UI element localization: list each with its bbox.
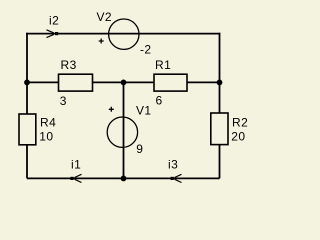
svg-text:3: 3: [60, 94, 67, 108]
svg-text:R3: R3: [61, 58, 77, 72]
svg-text:i3: i3: [168, 158, 178, 172]
svg-text:-2: -2: [140, 43, 151, 57]
svg-text:R2: R2: [232, 115, 248, 129]
svg-text:V2: V2: [97, 10, 112, 24]
svg-text:6: 6: [156, 94, 163, 108]
svg-text:R4: R4: [40, 115, 56, 129]
svg-text:V1: V1: [136, 104, 151, 118]
svg-text:i1: i1: [71, 158, 81, 172]
svg-text:10: 10: [39, 130, 53, 144]
svg-text:i2: i2: [49, 14, 59, 28]
svg-text:20: 20: [231, 130, 245, 144]
svg-text:R1: R1: [155, 58, 171, 72]
svg-text:9: 9: [136, 142, 143, 156]
